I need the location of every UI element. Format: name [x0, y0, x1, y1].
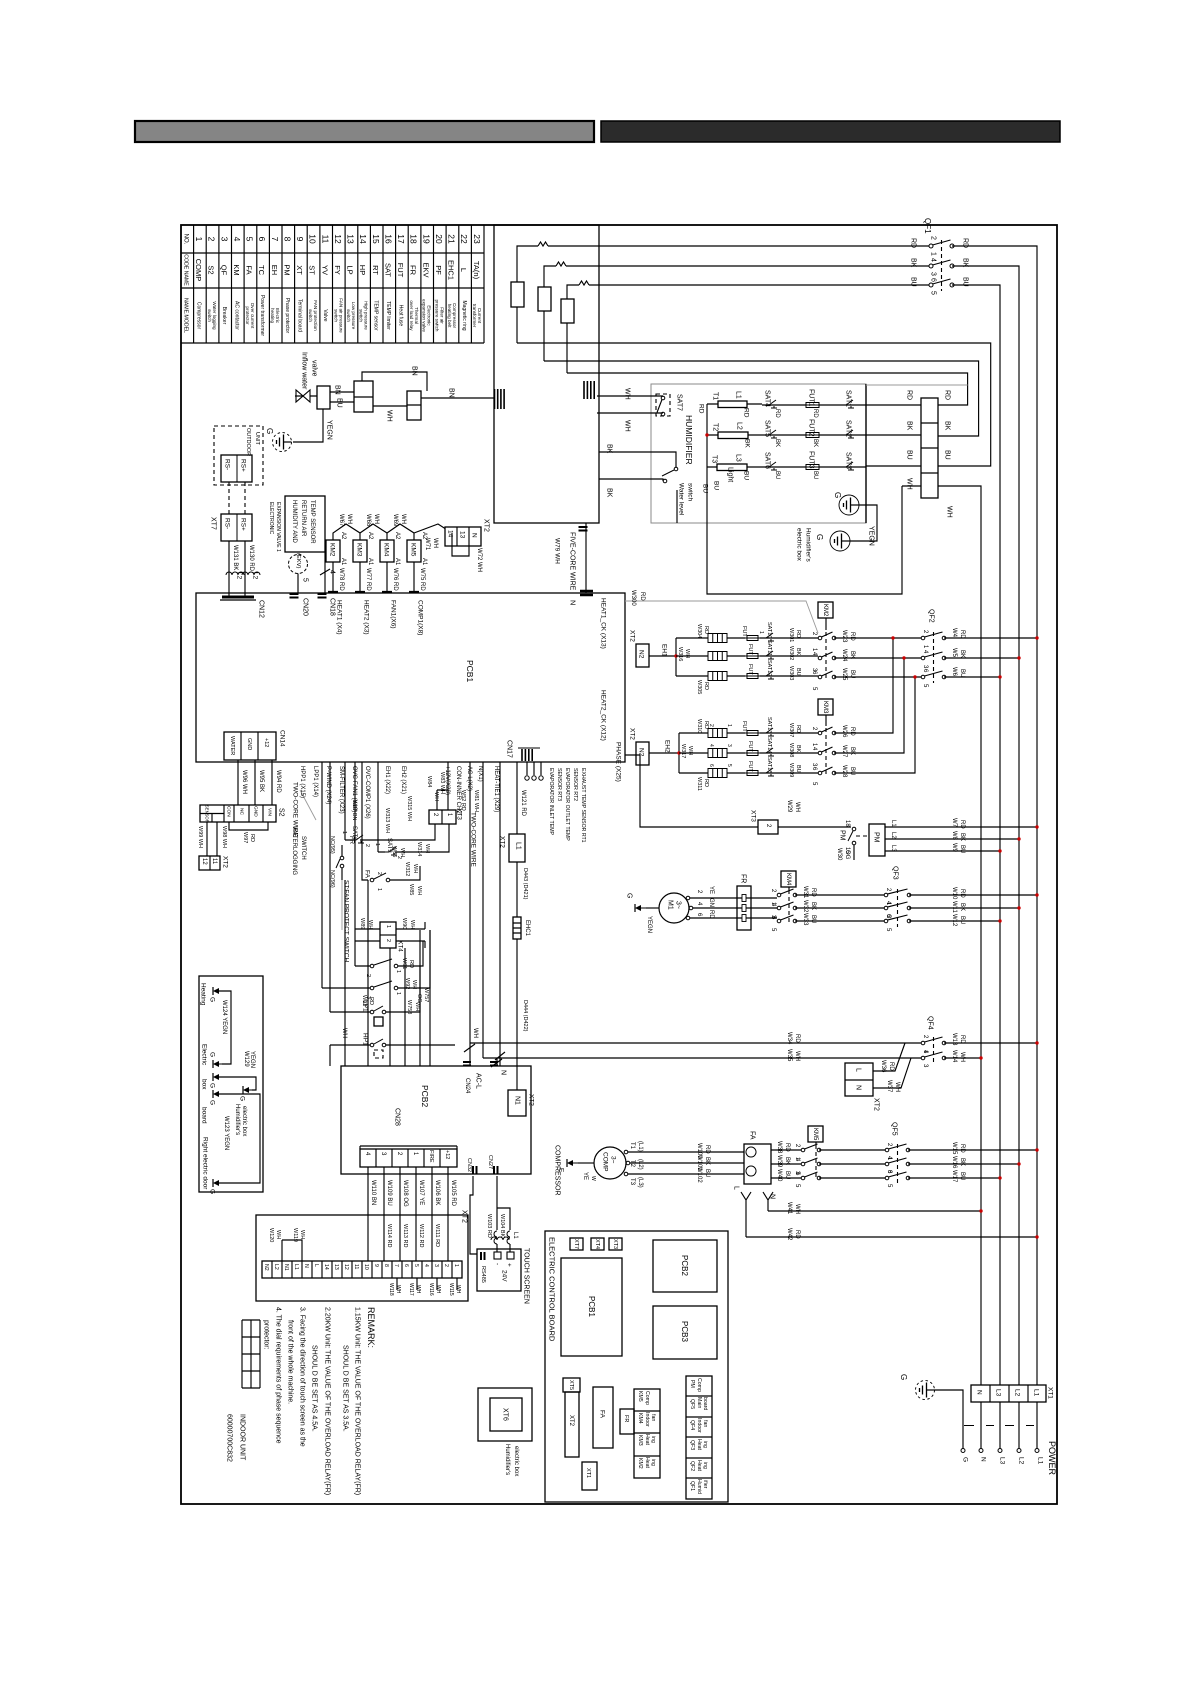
svg-text:YE: YE [708, 886, 714, 894]
svg-text:TWO-CORE WIRE: TWO-CORE WIRE [292, 782, 299, 838]
svg-text:W69: W69 [392, 514, 398, 527]
svg-text:SENSOR: SENSOR [205, 805, 210, 823]
EH2 branch 3 coil fuse SAT15 [679, 772, 818, 774]
svg-text:T1: T1 [629, 1142, 635, 1150]
humidifier enclosure box [651, 384, 866, 523]
svg-text:G: G [209, 1052, 216, 1057]
svg-text:WH: WH [424, 844, 430, 853]
svg-text:W106 BK: W106 BK [434, 1180, 440, 1205]
EH1 branch 3 coil fuse SAT12 [676, 675, 818, 677]
S2 water logging switch box [200, 805, 276, 822]
humidifier phase rail RD [707, 404, 902, 594]
svg-text:BU: BU [702, 484, 709, 493]
humidifier feed wire RD loop [567, 373, 968, 405]
breaker QF3 [884, 893, 888, 897]
CN14 connector on PCB1 bottom [224, 732, 276, 760]
svg-text:PM: PM [689, 1380, 695, 1388]
svg-text:S2: S2 [207, 265, 216, 274]
svg-text:W124 YEGN: W124 YEGN [221, 1000, 227, 1034]
svg-text:RD: RD [962, 238, 969, 248]
wire sensor to CN18 with tick [320, 552, 330, 593]
svg-text:BK: BK [959, 650, 965, 658]
svg-text:W115: W115 [448, 1283, 454, 1296]
svg-text:RD: RD [743, 408, 750, 418]
current transformer TA2 [538, 287, 551, 311]
svg-text:FY: FY [333, 265, 342, 275]
svg-text:3: 3 [930, 272, 937, 276]
svg-text:XT1: XT1 [1047, 1387, 1054, 1399]
svg-text:BK: BK [704, 1157, 710, 1165]
svg-text:WH: WH [346, 514, 352, 524]
FR NC contact 95 96 [341, 845, 343, 880]
layout QF column [686, 1376, 712, 1499]
svg-text:Breaker: Breaker [221, 307, 227, 325]
svg-text:BK: BK [962, 258, 969, 268]
svg-text:W7: W7 [951, 818, 957, 828]
heater T1-L1 [707, 403, 762, 405]
svg-text:A1: A1 [394, 558, 400, 566]
svg-text:W29: W29 [786, 800, 792, 813]
svg-text:Indoor: Indoor [644, 1412, 650, 1427]
svg-text:Power transformer: Power transformer [259, 295, 265, 336]
svg-text:FUT: FUT [747, 664, 753, 675]
terminal XT2 N1 [508, 1090, 526, 1116]
header black bar [601, 121, 1060, 142]
svg-text:TEMP SENSOR: TEMP SENSOR [309, 500, 315, 544]
valve relay box [407, 391, 421, 420]
svg-text:Humidifier's: Humidifier's [234, 1104, 240, 1135]
svg-text:ifier: ifier [702, 1480, 708, 1489]
svg-text:valve: valve [311, 360, 318, 376]
svg-text:G: G [962, 1457, 969, 1462]
svg-text:Humidifier's: Humidifier's [504, 1444, 510, 1475]
EKV electronic expansion valve [289, 555, 308, 574]
svg-text:switch: switch [687, 483, 694, 501]
breaker QF4 [921, 1041, 925, 1045]
svg-text:W84: W84 [426, 776, 432, 787]
svg-text:RD: RD [959, 1144, 965, 1153]
layout FR box [620, 1409, 634, 1434]
svg-text:A1: A1 [367, 558, 373, 566]
svg-text:SAT13: SAT13 [766, 717, 772, 733]
svg-text:QF4: QF4 [689, 1420, 695, 1430]
svg-text:ST: ST [308, 265, 317, 275]
EH1 rail [675, 638, 677, 676]
svg-text:BU: BU [810, 915, 816, 923]
svg-text:heating: heating [270, 308, 275, 324]
svg-text:EVAPORATOR OUTLET TEMP: EVAPORATOR OUTLET TEMP [564, 768, 570, 841]
svg-text:HUMIDITY AND: HUMIDITY AND [291, 500, 297, 544]
svg-text:REMARK:: REMARK: [366, 1307, 376, 1348]
svg-text:W107 YE: W107 YE [418, 1180, 424, 1205]
contactor KM3 poles [825, 715, 827, 726]
dashed comm wires [229, 482, 245, 514]
svg-text:SAT9: SAT9 [386, 838, 392, 853]
svg-text:FUT: FUT [741, 721, 747, 732]
svg-text:1.15KW Unit: THE VALUE OF THE: 1.15KW Unit: THE VALUE OF THE OVERLOAD R… [354, 1307, 361, 1495]
svg-text:4: 4 [423, 1264, 429, 1267]
svg-text:QF3: QF3 [689, 1440, 695, 1450]
svg-text:W121 RD: W121 RD [520, 790, 526, 817]
svg-text:RD: RD [959, 820, 965, 829]
svg-text:QF1: QF1 [923, 218, 932, 234]
svg-text:W17: W17 [951, 1170, 957, 1183]
svg-text:CN28: CN28 [394, 1108, 401, 1126]
svg-text:EH: EH [270, 265, 279, 275]
svg-text:FAN1(X6): FAN1(X6) [390, 600, 397, 629]
wires WH to SAT7 [597, 396, 663, 413]
svg-text:Main: Main [696, 1397, 702, 1408]
svg-text:W308: W308 [788, 743, 794, 757]
svg-text:XT2: XT2 [629, 630, 636, 642]
svg-text:BK: BK [784, 1157, 790, 1165]
svg-text:W78 RD: W78 RD [338, 568, 344, 591]
svg-text:RD: RD [703, 779, 709, 787]
svg-text:Indoor: Indoor [696, 1418, 702, 1433]
svg-text:G: G [265, 428, 274, 434]
svg-text:1: 1 [374, 843, 380, 846]
PCB1 top edge connector marks [328, 591, 419, 593]
svg-text:SAT11: SAT11 [766, 640, 772, 656]
contactor KM5 poles [815, 1142, 817, 1145]
wires humidifier box to strip [866, 405, 921, 486]
svg-text:12: 12 [333, 234, 343, 244]
ground arrow board [218, 1093, 226, 1095]
heater T3-L3 [707, 466, 764, 468]
switch SAT8 [345, 839, 375, 841]
svg-text:W42: W42 [786, 1228, 792, 1241]
svg-text:BN: BN [448, 388, 455, 398]
svg-text:ing: ing [702, 1441, 708, 1448]
svg-text:W25: W25 [841, 668, 847, 681]
wire W76 RD to PCB1 [386, 562, 388, 593]
svg-text:L3: L3 [890, 845, 896, 852]
svg-text:switch: switch [333, 309, 338, 322]
contactor KM5 label box [808, 1126, 823, 1142]
svg-text:FA: FA [749, 1131, 756, 1140]
svg-text:W96 WH: W96 WH [241, 770, 247, 794]
svg-text:11: 11 [353, 1264, 359, 1269]
thermal switch SAT5 FUT2 SAT2 chain [765, 434, 866, 436]
switch SAT7 [656, 394, 670, 416]
svg-text:+: + [506, 1263, 513, 1267]
wire valve BN [330, 372, 427, 392]
svg-text:W71: W71 [424, 538, 430, 551]
wire W72 [452, 533, 469, 556]
ground arrow electric [218, 1063, 226, 1065]
svg-text:W109 BU: W109 BU [386, 1180, 392, 1206]
fan motor M1 [659, 893, 689, 923]
wires SAT8 SAT9 left to PCB1 X22 X21 [345, 762, 378, 852]
coil feed zigzag wires W67 W68 W69 [333, 524, 452, 540]
ground collector box [199, 976, 263, 1192]
svg-text:RD: RD [795, 630, 801, 638]
svg-text:8: 8 [383, 1264, 389, 1267]
svg-text:Electric: Electric [201, 1044, 208, 1066]
svg-text:N1: N1 [514, 1096, 521, 1105]
svg-text:FUT3: FUT3 [808, 451, 815, 469]
svg-text:L3: L3 [995, 1389, 1002, 1397]
low pressure switch LP1 [330, 930, 420, 1012]
terminal XT2 L N [845, 1063, 873, 1096]
terminal XT3 two-cell [429, 810, 456, 824]
phase monitor PM box [869, 824, 885, 856]
svg-text:M1: M1 [667, 900, 674, 910]
svg-text:Terminal board: Terminal board [297, 299, 303, 332]
svg-text:RT: RT [371, 265, 380, 275]
contactor coil KM5 [407, 540, 421, 562]
svg-text:EHC1: EHC1 [524, 920, 530, 937]
svg-text:XT6: XT6 [502, 1408, 509, 1421]
EH1 branch 2 coil fuse SAT11 [676, 655, 818, 657]
svg-text:BK: BK [906, 421, 913, 431]
svg-text:FA: FA [245, 265, 254, 274]
svg-text:SWITCH: SWITCH [300, 836, 306, 860]
svg-text:W108 OG: W108 OG [402, 1180, 408, 1207]
svg-text:PF: PF [434, 265, 443, 275]
svg-text:L: L [313, 1264, 319, 1267]
wires XT2 LN to QF4 [873, 1043, 911, 1088]
svg-text:XT4: XT4 [594, 1239, 600, 1249]
svg-text:RD: RD [703, 721, 709, 729]
svg-text:7: 7 [270, 237, 280, 242]
svg-text:HEAT1_CK (X13): HEAT1_CK (X13) [600, 598, 607, 649]
outdoor RS terminal box [221, 455, 252, 482]
svg-text:FUT: FUT [741, 626, 747, 637]
svg-text:W37: W37 [886, 1080, 892, 1093]
wires into XT4 [355, 929, 425, 941]
svg-text:14: 14 [323, 1264, 329, 1270]
svg-text:6: 6 [930, 278, 937, 282]
svg-text:1: 1 [385, 925, 391, 928]
svg-text:fan: fan [650, 1414, 656, 1421]
wire W300 gray from PCB1 to KM2 [625, 601, 818, 633]
svg-text:W758: W758 [406, 1000, 412, 1014]
svg-text:W131 BK: W131 BK [232, 545, 238, 570]
svg-text:RD: RD [249, 834, 255, 842]
svg-text:3: 3 [726, 744, 732, 747]
terminal XT1 power [971, 1385, 1046, 1402]
contactor KM4 poles [788, 887, 790, 890]
svg-text:EXPANSION VALVE 1: EXPANSION VALVE 1 [275, 502, 281, 552]
humidifier enclosure right edge [865, 384, 867, 523]
svg-text:L: L [855, 1068, 862, 1072]
svg-text:FA: FA [599, 1410, 606, 1419]
svg-text:WH: WH [432, 538, 438, 548]
wire W316 to EH1 rail [649, 655, 676, 657]
RS485 connector in touch screen [481, 1252, 485, 1260]
svg-text:switch: switch [308, 309, 313, 322]
svg-text:L1: L1 [1033, 1389, 1040, 1397]
svg-text:N: N [976, 1390, 983, 1395]
svg-text:5: 5 [245, 237, 255, 242]
svg-text:XT4: XT4 [397, 940, 404, 952]
svg-text:N: N [769, 1194, 776, 1199]
dial grid table [242, 1320, 260, 1388]
svg-text:-: - [494, 1263, 501, 1265]
svg-text:BK: BK [959, 1158, 965, 1166]
svg-text:T3: T3 [629, 1178, 635, 1186]
svg-text:W41: W41 [786, 1202, 792, 1215]
svg-text:YEGN: YEGN [326, 420, 333, 440]
layout XT7 box [570, 1238, 583, 1250]
svg-text:BK: BK [810, 902, 816, 910]
svg-text:KM3: KM3 [356, 543, 363, 557]
svg-text:L3: L3 [999, 1457, 1006, 1465]
svg-text:CN18: CN18 [329, 598, 336, 616]
svg-text:BK: BK [795, 648, 801, 656]
valve earth ground [273, 433, 292, 452]
svg-text:FUT: FUT [396, 263, 405, 278]
svg-text:W52 RD: W52 RD [460, 790, 466, 811]
svg-text:RD: RD [849, 632, 855, 641]
svg-text:W113 RD: W113 RD [402, 1224, 408, 1247]
switch SAT9 [378, 851, 408, 853]
CN26 connector strip on PCB2 [360, 1149, 457, 1167]
svg-text:QF3: QF3 [892, 866, 899, 880]
humidifier box top edge extension [866, 384, 968, 386]
connector CN17 [522, 749, 532, 761]
svg-text:PCB2: PCB2 [420, 1085, 430, 1107]
contactor coil KM4 [380, 540, 394, 562]
svg-text:BU: BU [704, 1169, 710, 1177]
wires COMP to FA [624, 1152, 744, 1174]
svg-text:EVAPORATOR INLET TEMP: EVAPORATOR INLET TEMP [548, 768, 554, 836]
svg-text:11: 11 [320, 235, 330, 244]
svg-text:WH: WH [794, 1051, 800, 1061]
svg-text:L1: L1 [890, 820, 896, 827]
svg-text:2: 2 [376, 872, 382, 875]
EH2 branch 2 coil fuse SAT14 [679, 752, 818, 754]
wire YEGN to ground [293, 409, 323, 442]
svg-text:RD: RD [708, 910, 714, 919]
svg-text:PCB1: PCB1 [587, 1296, 596, 1317]
svg-text:W112 RD: W112 RD [418, 1224, 424, 1247]
svg-text:2: 2 [207, 237, 217, 242]
svg-text:BU: BU [962, 277, 969, 287]
svg-text:SENSOR RT2: SENSOR RT2 [572, 768, 578, 801]
svg-text:RD: RD [784, 1143, 790, 1152]
svg-text:WH: WH [412, 864, 418, 873]
svg-text:switch: switch [207, 309, 212, 322]
svg-text:KM: KM [232, 264, 241, 275]
svg-text:electric box: electric box [241, 1106, 247, 1136]
power pigtails with dashed link [981, 1402, 1037, 1448]
svg-text:WH: WH [455, 1285, 461, 1294]
svg-text:W111 RD: W111 RD [434, 1224, 440, 1247]
svg-text:W81 WH: W81 WH [473, 790, 479, 812]
wire D443 [516, 862, 518, 917]
svg-text:RD: RD [794, 1230, 800, 1239]
svg-text:HPP1 (X15): HPP1 (X15) [299, 766, 305, 798]
svg-text:INDOOR UNIT: INDOOR UNIT [239, 1414, 246, 1461]
W119 W120 wires left [282, 1240, 302, 1261]
svg-text:KM2: KM2 [637, 1458, 643, 1469]
svg-text:W316: W316 [677, 647, 683, 661]
svg-text:RD: RD [703, 626, 709, 634]
svg-text:SAT2: SAT2 [845, 420, 852, 437]
svg-text:ELECTRONIC: ELECTRONIC [268, 502, 274, 535]
svg-text:W75 RD: W75 RD [419, 568, 425, 591]
svg-text:WH: WH [299, 1230, 305, 1239]
svg-text:S2: S2 [278, 808, 285, 817]
humidifier terminal strip [921, 398, 938, 498]
terminal XT2 N-13-14 [445, 527, 481, 546]
svg-text:W130 RD: W130 RD [248, 545, 254, 572]
svg-text:W310: W310 [696, 719, 702, 733]
svg-text:6: 6 [257, 237, 267, 242]
svg-text:XT2: XT2 [629, 728, 636, 740]
svg-text:T2: T2 [629, 1160, 635, 1168]
svg-text:Heat fuse: Heat fuse [398, 305, 404, 327]
svg-text:WH: WH [435, 1285, 441, 1294]
header gray bar [135, 121, 594, 142]
svg-text:WH: WH [624, 420, 631, 432]
svg-text:W313 WH: W313 WH [384, 808, 390, 833]
svg-text:W87 BN: W87 BN [351, 800, 357, 821]
wires QF5 to buses [908, 1150, 1037, 1178]
svg-text:WH: WH [415, 1285, 421, 1294]
svg-text:22: 22 [459, 234, 469, 244]
svg-text:2.20KW Unit: THE VALUE OF THE: 2.20KW Unit: THE VALUE OF THE OVERLOAD R… [324, 1307, 331, 1495]
electric control board outline [545, 1231, 728, 1502]
svg-text:W119: W119 [292, 1228, 298, 1242]
svg-text:W67: W67 [338, 514, 344, 527]
svg-text:T2: T2 [712, 423, 719, 431]
svg-text:TOUCH SCREEN: TOUCH SCREEN [523, 1248, 530, 1304]
svg-text:1: 1 [194, 237, 204, 242]
svg-text:BN: BN [411, 366, 418, 376]
svg-text:XT2: XT2 [873, 1098, 880, 1111]
svg-text:WH: WH [341, 1028, 347, 1038]
svg-text:RD: RD [959, 889, 965, 898]
layout PCB3 rect [653, 1306, 717, 1359]
five-core cable connector into humidifier [584, 381, 594, 399]
svg-text:electric box: electric box [513, 1446, 519, 1476]
legend table grid [181, 225, 484, 343]
svg-text:transformer: transformer [472, 304, 477, 328]
svg-text:13: 13 [333, 1264, 339, 1270]
svg-text:KM2: KM2 [329, 543, 336, 557]
svg-text:BU: BU [774, 471, 780, 479]
svg-text:L2: L2 [736, 422, 743, 430]
svg-text:HP1: HP1 [362, 1033, 369, 1046]
svg-text:W114 RD: W114 RD [386, 1224, 392, 1247]
wires QF4 to buses [944, 1043, 1037, 1058]
svg-text:(L2): (L2) [637, 1159, 643, 1170]
svg-text:ELECTRIC CONTROL BOARD: ELECTRIC CONTROL BOARD [547, 1237, 556, 1342]
svg-text:UNIT: UNIT [254, 432, 260, 445]
svg-text:W5: W5 [951, 648, 957, 658]
contactor coil KM2 [326, 540, 340, 562]
svg-text:L2: L2 [273, 1264, 279, 1270]
wires QF2 to buses [944, 638, 1037, 677]
svg-text:4: 4 [930, 258, 937, 262]
outdoor unit dashed box [214, 426, 263, 485]
svg-text:FIRE: FIRE [428, 1150, 434, 1163]
svg-text:CN27: CN27 [487, 1155, 493, 1169]
wires M1 to FR [686, 898, 737, 918]
svg-text:1: 1 [376, 888, 382, 891]
svg-text:W36: W36 [880, 1060, 886, 1073]
PCB2 top connectors CN24 N [463, 1062, 471, 1066]
wire QF1 pole4 to TA2 [544, 266, 931, 361]
wires KM5 to QF5 [819, 1150, 885, 1178]
svg-text:RD: RD [639, 592, 645, 601]
svg-text:protector: protector [245, 306, 250, 325]
magnetic ring zigzag on phase wire 3 [579, 281, 589, 285]
svg-text:SAT3: SAT3 [845, 452, 852, 469]
